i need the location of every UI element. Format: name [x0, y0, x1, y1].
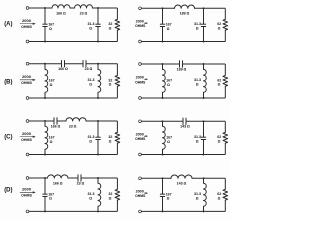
svg-text:Ω: Ω — [89, 82, 92, 86]
D-right bottom wire — [141, 210, 225, 212]
svg-text:2000: 2000 — [136, 76, 144, 80]
B-right bottom wire — [141, 97, 225, 99]
D-right shunt inductor 31.3 ohm — [204, 178, 207, 211]
svg-text:23 Ω: 23 Ω — [69, 125, 77, 129]
svg-text:62: 62 — [217, 192, 221, 196]
C-left shunt inductor 167 ohm — [45, 121, 48, 155]
svg-text:62: 62 — [217, 135, 221, 139]
svg-text:166 Ω: 166 Ω — [58, 67, 68, 71]
A-left load resistor 32 ohm (right edge) — [116, 8, 118, 19]
B-left bottom wire — [29, 97, 118, 99]
B-left node at second shunt (bottom) — [97, 97, 99, 99]
A-right bottom wire — [141, 41, 225, 43]
C-right shunt inductor 167 ohm — [163, 121, 166, 154]
A-right input terminal top — [139, 7, 142, 10]
svg-text:OHMS: OHMS — [135, 194, 146, 198]
D-left load resistor 32 ohm (right edge) — [116, 178, 118, 189]
svg-text:32: 32 — [108, 78, 112, 82]
svg-text:2000: 2000 — [136, 19, 144, 23]
svg-text:Ω: Ω — [218, 140, 221, 144]
svg-text:Ω: Ω — [89, 26, 92, 30]
svg-text:Ω: Ω — [196, 82, 199, 86]
svg-text:(A): (A) — [4, 22, 12, 28]
C-left series inductor 23 &#8486; — [66, 120, 85, 122]
D-left top wire — [29, 177, 118, 179]
svg-text:OHMS: OHMS — [21, 194, 32, 198]
D-left node at first shunt (bottom) — [44, 210, 46, 212]
svg-text:31.3: 31.3 — [88, 22, 95, 26]
svg-text:23 Ω: 23 Ω — [77, 182, 85, 186]
svg-text:Ω: Ω — [50, 140, 53, 144]
svg-text:31.3: 31.3 — [88, 78, 95, 82]
C-right top wire — [141, 120, 225, 122]
svg-text:Ω: Ω — [109, 27, 112, 31]
B-left shunt inductor 167 ohm — [45, 64, 48, 98]
C-right node at first shunt (top) — [162, 120, 164, 122]
svg-text:189 Ω: 189 Ω — [180, 12, 190, 16]
A-left node at second shunt (top) — [97, 7, 99, 9]
C-right node at first shunt (bottom) — [162, 154, 164, 156]
B-left series capacitor 166 &#8486; — [62, 63, 65, 65]
svg-text:OHMS: OHMS — [135, 80, 146, 84]
svg-text:2000: 2000 — [22, 187, 32, 192]
B-right series capacitor 189 &#8486; — [180, 63, 183, 65]
svg-text:167: 167 — [49, 135, 55, 139]
D-right node at first shunt (top) — [162, 177, 164, 179]
C-left series capacitor 166 &#8486; — [54, 120, 57, 122]
D-left input terminal bottom — [26, 210, 29, 213]
B-right shunt inductor 31.3 ohm — [204, 64, 207, 98]
A-left shunt capacitor 31.3 ohm — [97, 8, 99, 24]
D-right top wire — [141, 177, 225, 179]
svg-text:31.3: 31.3 — [88, 135, 95, 139]
A-right node at first shunt (bottom) — [162, 41, 164, 43]
D-right node at second shunt (top) — [203, 177, 205, 179]
B-right node at second shunt (top) — [203, 63, 205, 65]
svg-text:2000: 2000 — [136, 189, 144, 193]
C-right load resistor 62 ohm (right edge) — [224, 121, 226, 132]
svg-text:OHMS: OHMS — [135, 24, 146, 28]
svg-text:31.3: 31.3 — [194, 192, 201, 196]
B-left load resistor 32 ohm (right edge) — [116, 64, 118, 76]
B-left node at second shunt (top) — [97, 63, 99, 65]
svg-text:166 Ω: 166 Ω — [53, 182, 63, 186]
D-right node at second shunt (bottom) — [203, 210, 205, 212]
svg-text:Ω: Ω — [89, 196, 92, 200]
A-left node at first shunt (top) — [44, 7, 46, 9]
C-left load resistor 32 ohm (right edge) — [116, 121, 118, 132]
svg-text:32: 32 — [108, 135, 112, 139]
B-left top wire — [29, 63, 118, 65]
svg-text:167: 167 — [166, 22, 172, 26]
A-right shunt capacitor 31.3 ohm — [203, 8, 205, 24]
A-left top wire — [29, 7, 118, 9]
C-left node at first shunt (top) — [44, 120, 46, 122]
svg-text:143 Ω: 143 Ω — [177, 182, 187, 186]
svg-text:OHMS: OHMS — [21, 81, 32, 85]
C-left bottom wire — [29, 154, 118, 156]
C-right series capacitor 143 &#8486; — [183, 120, 186, 122]
svg-text:Ω: Ω — [167, 140, 170, 144]
B-left node at first shunt (top) — [44, 63, 46, 65]
D-left series inductor 166 &#8486; — [48, 177, 68, 179]
A-right node at second shunt (top) — [203, 7, 205, 9]
D-left shunt capacitor 167 ohm — [44, 178, 46, 194]
svg-text:2000: 2000 — [22, 74, 32, 79]
B-right input terminal bottom — [139, 97, 142, 100]
svg-text:(C): (C) — [4, 135, 12, 141]
svg-text:Ω: Ω — [196, 196, 199, 200]
D-right input terminal top — [139, 177, 142, 180]
svg-text:Ω: Ω — [109, 197, 112, 201]
svg-text:Ω: Ω — [50, 83, 53, 87]
B-right input terminal top — [139, 63, 142, 66]
svg-text:Ω: Ω — [196, 26, 199, 30]
svg-text:Ω: Ω — [218, 197, 221, 201]
A-left bottom wire — [29, 41, 118, 43]
C-left input terminal top — [26, 120, 29, 123]
svg-text:Ω: Ω — [167, 83, 170, 87]
B-right shunt inductor 167 ohm — [163, 64, 166, 98]
svg-text:189 Ω: 189 Ω — [177, 67, 187, 71]
B-right load resistor 62 ohm (right edge) — [224, 64, 226, 75]
B-left input terminal bottom — [26, 97, 29, 100]
A-left shunt capacitor 167 ohm — [44, 8, 46, 24]
A-right node at second shunt (bottom) — [203, 41, 205, 43]
svg-text:143 Ω: 143 Ω — [180, 125, 190, 129]
B-left series capacitor 23 &#8486; — [83, 63, 86, 65]
svg-text:Ω: Ω — [218, 83, 221, 87]
C-left node at second shunt (top) — [97, 120, 99, 122]
C-left shunt capacitor 31.3 ohm — [97, 121, 99, 137]
D-left series capacitor 23 &#8486; — [78, 177, 81, 179]
B-right top wire — [141, 63, 225, 65]
D-left bottom wire — [29, 210, 118, 212]
svg-text:OHMS: OHMS — [21, 25, 32, 29]
D-right shunt capacitor 167 ohm — [162, 178, 164, 194]
svg-text:32: 32 — [108, 192, 112, 196]
svg-text:(B): (B) — [4, 80, 12, 86]
svg-text:167: 167 — [49, 78, 55, 82]
svg-text:Ω: Ω — [218, 27, 221, 31]
svg-text:Ω: Ω — [109, 83, 112, 87]
A-right shunt capacitor 167 ohm — [162, 8, 164, 24]
svg-text:Ω: Ω — [109, 140, 112, 144]
svg-text:2000: 2000 — [22, 131, 32, 136]
D-right series inductor 143 &#8486; — [171, 178, 191, 180]
C-right bottom wire — [141, 154, 225, 156]
C-right node at second shunt (bottom) — [203, 154, 205, 156]
svg-text:23 Ω: 23 Ω — [80, 12, 88, 16]
svg-text:Ω: Ω — [196, 139, 199, 143]
svg-text:23 Ω: 23 Ω — [85, 67, 93, 71]
A-right top wire — [141, 7, 225, 9]
svg-text:2000: 2000 — [136, 132, 144, 136]
C-left node at second shunt (bottom) — [97, 154, 99, 156]
B-right node at first shunt (bottom) — [162, 97, 164, 99]
C-left input terminal bottom — [26, 153, 29, 156]
A-left input terminal bottom — [26, 40, 29, 43]
A-left input terminal top — [26, 7, 29, 10]
svg-text:OHMS: OHMS — [21, 138, 32, 142]
svg-text:166 Ω: 166 Ω — [51, 125, 61, 129]
svg-text:167: 167 — [166, 192, 172, 196]
svg-text:167: 167 — [48, 22, 54, 26]
svg-text:167: 167 — [48, 192, 54, 196]
svg-text:Ω: Ω — [49, 27, 52, 31]
svg-text:Ω: Ω — [89, 139, 92, 143]
svg-text:OHMS: OHMS — [135, 137, 146, 141]
svg-text:31.3: 31.3 — [194, 78, 201, 82]
C-left node at first shunt (bottom) — [44, 154, 46, 156]
A-right node at first shunt (top) — [162, 7, 164, 9]
B-left node at first shunt (bottom) — [44, 97, 46, 99]
svg-text:167: 167 — [166, 135, 172, 139]
D-left node at second shunt (top) — [97, 177, 99, 179]
A-left series inductor 23 &#8486; — [75, 7, 92, 9]
D-left shunt inductor 31.3 ohm — [98, 178, 101, 211]
D-left node at first shunt (top) — [44, 177, 46, 179]
D-right node at first shunt (bottom) — [162, 210, 164, 212]
A-right input terminal bottom — [139, 40, 142, 43]
svg-text:62: 62 — [217, 22, 221, 26]
svg-text:167: 167 — [166, 78, 172, 82]
C-right node at second shunt (top) — [203, 120, 205, 122]
svg-text:32: 32 — [108, 22, 112, 26]
svg-text:2000: 2000 — [22, 18, 32, 23]
B-left input terminal top — [26, 62, 29, 65]
A-left node at second shunt (bottom) — [97, 41, 99, 43]
svg-text:Ω: Ω — [167, 27, 170, 31]
A-right load resistor 62 ohm (right edge) — [224, 8, 226, 19]
svg-text:62: 62 — [217, 78, 221, 82]
svg-text:31.3: 31.3 — [88, 192, 95, 196]
svg-text:Ω: Ω — [167, 197, 170, 201]
svg-text:166 Ω: 166 Ω — [56, 12, 66, 16]
C-right input terminal bottom — [139, 153, 142, 156]
B-right node at first shunt (top) — [162, 63, 164, 65]
C-right input terminal top — [139, 120, 142, 123]
B-left shunt inductor 31.3 ohm — [98, 64, 101, 98]
svg-text:31.3: 31.3 — [194, 22, 201, 26]
svg-text:(D): (D) — [4, 188, 12, 194]
svg-text:31.3: 31.3 — [194, 135, 201, 139]
D-left node at second shunt (bottom) — [97, 210, 99, 212]
D-right load resistor 62 ohm (right edge) — [224, 178, 226, 189]
C-left top wire — [29, 120, 118, 122]
A-right series inductor 189 &#8486; — [175, 8, 194, 10]
B-right node at second shunt (bottom) — [203, 97, 205, 99]
D-left input terminal top — [26, 177, 29, 180]
A-left node at first shunt (bottom) — [44, 41, 46, 43]
A-left series inductor 166 &#8486; — [52, 7, 69, 9]
D-right input terminal bottom — [139, 210, 142, 213]
svg-text:Ω: Ω — [49, 197, 52, 201]
C-right shunt capacitor 31.3 ohm — [203, 121, 205, 137]
